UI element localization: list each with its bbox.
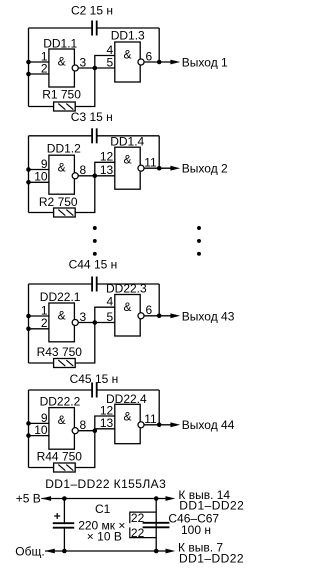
svg-text:R43 750: R43 750: [37, 345, 83, 359]
wire resistor left: [29, 362, 54, 364]
svg-text:Общ.: Общ.: [15, 544, 44, 558]
wire left vertical input net: [28, 28, 30, 107]
svg-text:22: 22: [131, 511, 145, 525]
svg-text:× 10 В: × 10 В: [87, 529, 122, 543]
gate DD22.4: [115, 404, 140, 443]
Общ. arrow: [45, 549, 55, 554]
wire +5 В rail: [41, 498, 166, 500]
svg-text:+5 В: +5 В: [16, 492, 41, 506]
node pin 1 junction: [26, 314, 31, 319]
wire resistor left: [29, 106, 54, 108]
wire resistor right to junction: [75, 176, 95, 213]
svg-text:5: 5: [107, 55, 114, 69]
node junction mid: [93, 320, 98, 325]
svg-text:DD22.1: DD22.1: [40, 290, 81, 304]
svg-text:C44 15 н: C44 15 н: [69, 257, 118, 271]
svg-text:C3 15 н: C3 15 н: [71, 110, 113, 124]
svg-text:8: 8: [80, 163, 87, 177]
svg-text:22: 22: [131, 526, 145, 540]
node pin 10 junction: [26, 433, 31, 438]
wire top feedback left segment: [29, 389, 93, 391]
svg-text:DD1.1: DD1.1: [43, 37, 77, 51]
wire junction up to pin 4: [95, 56, 115, 69]
wire pin-14 arrow: [166, 496, 176, 501]
gate DD1.1: [49, 49, 75, 87]
node C1 bottom junction: [62, 549, 67, 554]
+5 В arrow: [41, 496, 51, 501]
wire resistor left: [29, 467, 54, 469]
wire top feedback right segment: [97, 135, 160, 137]
node junction mid: [93, 174, 98, 179]
ellipsis continuation dots column 2: [197, 226, 201, 230]
node output junction: [157, 60, 162, 65]
capacitor C46-C67 bank: [143, 522, 170, 524]
node output junction: [157, 314, 162, 319]
node output junction: [157, 166, 162, 171]
svg-text:&: &: [58, 413, 66, 427]
wire pin 10: [29, 181, 49, 183]
output arrow: [170, 166, 180, 171]
svg-text:3: 3: [80, 55, 87, 69]
svg-text:DD1.4: DD1.4: [110, 134, 144, 148]
wire right vertical from output: [158, 390, 160, 425]
svg-text:8: 8: [80, 418, 87, 432]
wire output pin 3 to input: [78, 322, 114, 324]
svg-text:10: 10: [34, 423, 48, 437]
output arrow: [170, 60, 180, 65]
wire output pin 8 to input: [78, 175, 114, 177]
wire pin 9: [29, 422, 49, 424]
svg-text:DD22.3: DD22.3: [106, 282, 147, 296]
wire pin-7 arrow: [166, 549, 176, 554]
svg-text:6: 6: [146, 49, 153, 63]
gate DD1.2: [49, 155, 75, 194]
svg-text:13: 13: [100, 163, 114, 177]
wire output pin 8: [78, 430, 94, 432]
wire top feedback right segment: [97, 283, 160, 285]
output arrow: [170, 313, 180, 318]
svg-text:11: 11: [144, 412, 157, 426]
wire junction up to pin 4: [95, 307, 115, 322]
svg-text:5: 5: [107, 310, 114, 324]
wire pin 2: [29, 328, 49, 330]
wire top feedback right segment: [97, 389, 160, 391]
wire pin 13: [95, 428, 115, 430]
wire output pin 11: [144, 167, 171, 169]
svg-text:Выход 1: Выход 1: [182, 55, 228, 69]
capacitor C2: [91, 21, 93, 36]
gate DD22.3: [115, 295, 140, 337]
svg-text:DD1–DD22: DD1–DD22: [179, 499, 244, 513]
wire junction up to pin 12: [95, 416, 115, 431]
svg-text:6: 6: [146, 303, 153, 317]
svg-text:Выход 2: Выход 2: [182, 161, 228, 175]
node bus bottom junction: [154, 549, 159, 554]
svg-text:2: 2: [41, 316, 48, 330]
svg-text:12: 12: [100, 150, 114, 164]
svg-text:R1 750: R1 750: [42, 88, 81, 102]
wire top feedback left segment: [29, 135, 93, 137]
node bus top junction: [154, 496, 159, 501]
node C1 top junction: [62, 496, 67, 501]
wire left vertical input net: [28, 284, 30, 363]
wire right vertical from output: [158, 284, 160, 316]
wire right vertical from output: [158, 136, 160, 168]
svg-text:DD1–DD22 К155ЛА3: DD1–DD22 К155ЛА3: [45, 477, 166, 491]
svg-text:&: &: [123, 410, 131, 424]
output arrow: [170, 422, 180, 427]
wire C1 lower lead: [63, 528, 65, 551]
wire pin 1: [29, 315, 49, 317]
wire resistor right to junction: [75, 68, 95, 107]
svg-text:DD1–DD22: DD1–DD22: [179, 551, 244, 565]
wire C1 upper lead: [63, 499, 65, 524]
capacitor C3: [91, 128, 93, 143]
wire pin 9: [29, 169, 49, 171]
gate DD1.4: [115, 147, 140, 189]
svg-text:C1: C1: [95, 502, 111, 516]
svg-text:C45 15 н: C45 15 н: [70, 372, 119, 386]
resistor R1: [54, 102, 76, 111]
svg-text:3: 3: [80, 310, 87, 324]
wire left vertical input net: [28, 136, 30, 213]
svg-text:&: &: [58, 161, 66, 175]
svg-text:C2 15 н: C2 15 н: [71, 3, 113, 17]
svg-text:R44 750: R44 750: [37, 449, 83, 463]
node pin 2 junction: [26, 327, 31, 332]
capacitor C1: [53, 522, 74, 524]
wire resistor right to junction: [75, 323, 95, 364]
wire right vertical from output: [158, 28, 160, 62]
wire resistor right to junction: [75, 431, 95, 468]
wire output pin 6: [144, 315, 171, 317]
svg-text:DD22.2: DD22.2: [40, 394, 81, 408]
node junction mid: [93, 66, 98, 71]
wire pin 1: [29, 61, 49, 63]
wire Общ. rail: [45, 550, 167, 552]
svg-text:DD1.2: DD1.2: [47, 141, 81, 155]
wire output pin 3 to input: [78, 67, 114, 69]
svg-text:DD22.4: DD22.4: [106, 392, 147, 406]
svg-text:11: 11: [144, 156, 157, 170]
node pin 1 junction: [26, 60, 31, 65]
wire output pin 6: [144, 61, 171, 63]
node pin 9 junction: [26, 167, 31, 172]
wire resistor left: [29, 212, 54, 214]
wire top feedback left segment: [29, 283, 93, 285]
svg-text:DD1.3: DD1.3: [111, 29, 145, 43]
capacitor C44: [91, 277, 93, 292]
svg-text:&: &: [123, 47, 131, 61]
capacitor C45: [91, 383, 93, 398]
node junction mid: [93, 428, 98, 433]
svg-text:2: 2: [41, 61, 48, 75]
wire pin 2: [29, 73, 49, 75]
svg-text:100 н: 100 н: [181, 523, 211, 537]
svg-text:Выход 43: Выход 43: [182, 310, 235, 324]
wire junction up to pin 12: [95, 162, 115, 176]
resistor R2: [54, 208, 76, 217]
svg-text:&: &: [123, 300, 131, 314]
wire bus vertical: [155, 499, 157, 552]
wire output pin 11: [144, 424, 171, 426]
svg-text:Выход 44: Выход 44: [182, 418, 235, 432]
svg-text:13: 13: [100, 416, 114, 430]
ellipsis continuation dots column 1: [93, 226, 97, 230]
gate DD1.3: [115, 42, 140, 82]
svg-text:10: 10: [34, 170, 48, 184]
wire left vertical input net: [28, 390, 30, 468]
svg-text:&: &: [123, 153, 131, 167]
node pin 10 junction: [26, 180, 31, 185]
svg-text:R2 750: R2 750: [39, 195, 78, 209]
resistor R44: [54, 463, 76, 472]
wire top feedback right segment: [97, 27, 160, 29]
node output junction: [157, 423, 162, 428]
node pin 2 junction: [26, 72, 31, 77]
svg-text:4: 4: [107, 295, 114, 309]
wire top feedback left segment: [29, 27, 93, 29]
svg-text:&: &: [58, 308, 66, 322]
svg-text:&: &: [58, 54, 66, 68]
gate DD22.2: [49, 408, 75, 450]
gate DD22.1: [49, 303, 75, 342]
node pin 9 junction: [26, 421, 31, 426]
resistor R43: [54, 359, 76, 368]
wire pin 10: [29, 435, 49, 437]
